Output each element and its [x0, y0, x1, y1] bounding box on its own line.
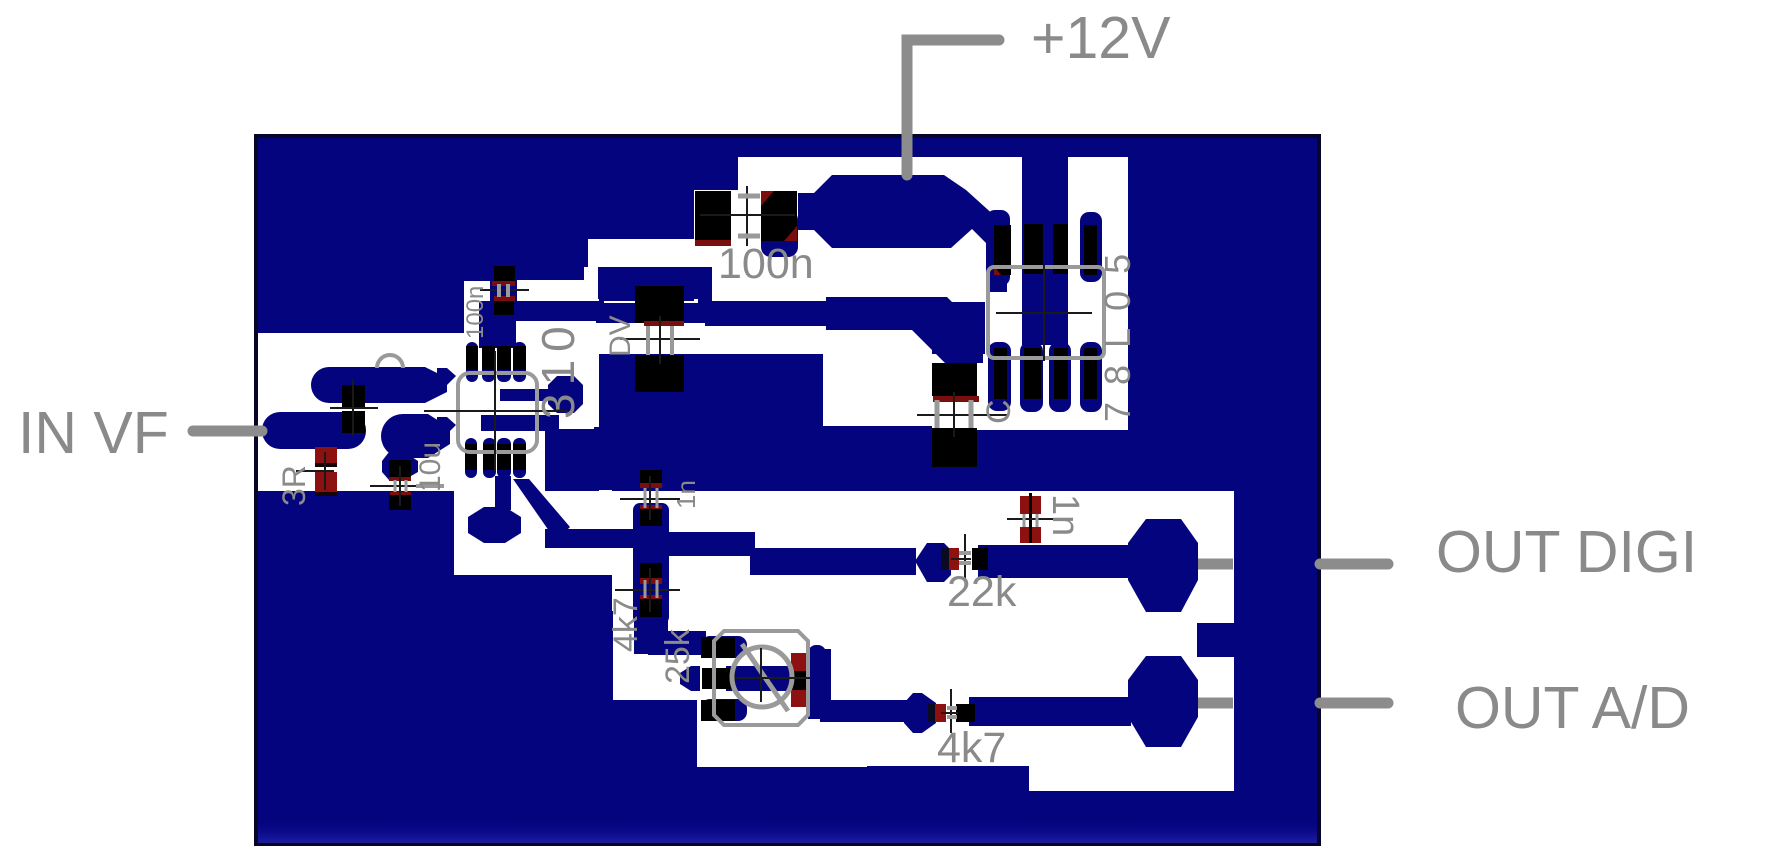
isolation (routed) white regions [258, 157, 1234, 791]
78L05 pad F black [1024, 348, 1041, 399]
IC1 pin7 black [497, 444, 511, 470]
capacitor C4 pads [932, 363, 977, 396]
wire trimmer wiper bar [726, 666, 826, 691]
pad OUT DIGI octagon [1128, 519, 1198, 612]
component pads black/red [315, 191, 1097, 722]
wire lead +12V [907, 40, 999, 175]
wire lead OUT DIGI outer [1320, 559, 1388, 570]
svg-text:10u: 10u [414, 442, 447, 492]
pad R3 left hexagon [904, 693, 936, 733]
wire junction block [635, 524, 668, 562]
isolation around C4 [932, 354, 990, 430]
isolation step bottom right [1029, 766, 1234, 791]
capacitor pad below C3 [382, 452, 418, 480]
pad IC1 top pins [466, 342, 478, 382]
trimmer slot line [742, 644, 788, 711]
isolation region trimmer right [697, 575, 867, 767]
3R3 crosshair [296, 452, 334, 490]
capacitor pads between R1 and lower stadium [342, 385, 365, 407]
wire elbow C6 to trimmer [634, 611, 668, 654]
svg-text:310: 310 [532, 318, 584, 419]
svg-text:78L05: 78L05 [1097, 237, 1138, 422]
78L05 outline [988, 267, 1104, 358]
pad A surround 78L05 pin [986, 210, 1010, 286]
wire IC1 pin4 to C1 area [598, 267, 712, 299]
svg-text:1n: 1n [1044, 494, 1086, 536]
svg-text:IN VF: IN VF [18, 400, 169, 466]
pad G surround 78L05 [1049, 342, 1071, 412]
wire R3 to OUT A/D pad [969, 697, 1131, 726]
pad stadium lower (IN VF entry) [262, 412, 366, 449]
svg-text:+12V: +12V [1031, 5, 1171, 71]
svg-text:25k: 25k [659, 628, 697, 684]
wire lead OUT DIGI inner [1198, 559, 1233, 570]
pad F surround 78L05 [1020, 342, 1043, 412]
IC1 pin6 black [483, 444, 496, 470]
4k7 resistor crosshair [941, 689, 958, 733]
isolation region trimmer left [613, 575, 697, 700]
capacitor C-DV pads [635, 286, 684, 323]
wire R1 to IC1 pin1 [437, 368, 456, 385]
78L05 pad D black [1084, 225, 1097, 275]
pad octagon below IC1 [468, 507, 521, 543]
C below C3 crosshair [370, 466, 418, 506]
trimmer outline [714, 631, 808, 725]
capacitor 1n pads [1020, 496, 1041, 514]
wire bar below IC1 center [481, 415, 559, 431]
isolation left band with IN VF pads and IC1 [258, 333, 594, 491]
svg-text:1n: 1n [671, 480, 701, 509]
isolation channel mid [694, 299, 823, 354]
silk arc fragment above R1 [377, 355, 403, 368]
wire IC1 pin3 down to octagon [495, 476, 511, 510]
capacitor C1 100n pad left [695, 191, 731, 240]
svg-text:100n: 100n [718, 240, 814, 288]
C1 crosshair [700, 186, 795, 246]
78L05 pad G black [1054, 348, 1068, 399]
trimmer P1 pad T1 [701, 637, 735, 658]
IC1 pin2 black [482, 346, 495, 370]
trimmer P1 pad T3 pill [701, 699, 747, 721]
pad octagon right of IC1 [548, 376, 583, 413]
wire link column [698, 297, 712, 313]
wire fat +12V trace from C1 to 78L05 pad A [798, 175, 1007, 292]
wire band from C2 to GND cap C4 [514, 301, 604, 321]
trimmer crosshair [735, 648, 810, 702]
capacitor C2 pads above IC1 [494, 266, 515, 281]
pad D surround 78L05 [1080, 212, 1102, 282]
isolation around octagon below IC1 [454, 490, 612, 575]
wire lead OUT A/D outer [1320, 698, 1388, 709]
wire horizontal to junction [545, 529, 640, 548]
pad C1 right surround [761, 210, 798, 257]
C6 crosshair [615, 568, 680, 612]
isolation band below 100n label [694, 250, 985, 302]
svg-text:4k7: 4k7 [607, 597, 645, 652]
wire C3 to IC1 pin5 [437, 417, 456, 434]
78L05 pad A black [994, 225, 1011, 275]
pad trimmer right pill [808, 645, 826, 714]
trimmer circle [732, 647, 792, 707]
svg-text:DV: DV [604, 315, 637, 357]
78L05 pad E black [994, 348, 1007, 399]
pad E surround 78L05 [988, 342, 1011, 411]
22k resistor crosshair [951, 534, 971, 582]
pour patch right of OUT DIGI [1197, 623, 1234, 657]
wire 22k to OUT DIGI pad [978, 545, 1130, 578]
wire diagonal from IC1 pin8 [513, 479, 570, 541]
wire lead OUT A/D inner [1198, 698, 1233, 709]
trimmer P1 right pads red [791, 653, 809, 671]
on-board value labels [276, 237, 1138, 772]
board outline (PCB edge) [256, 136, 1319, 844]
1n cap crosshair [1007, 518, 1054, 520]
resistor 3R3 red pads [315, 447, 337, 466]
silkscreen and annotations [296, 186, 1104, 733]
copper pour finger east of IC1 [545, 429, 599, 491]
78L05 pad C black [1053, 224, 1068, 274]
IC1 outline [458, 373, 537, 452]
svg-text:C: C [980, 399, 1018, 424]
pad OUT A/D octagon [1128, 656, 1198, 747]
C4 crosshair [917, 392, 1007, 437]
trimmer P1 pad T2 pill [680, 666, 700, 691]
capacitor C1 100n pad right [761, 191, 797, 241]
78L05 pad B black [1024, 224, 1043, 274]
IC1 crosshair [424, 351, 568, 471]
isolation column right of IC1 [514, 280, 599, 427]
78L05 crosshair [996, 265, 1092, 361]
wire IC1 to octagon [500, 389, 552, 401]
pour bottom bevel highlight [0, 0, 1, 1]
wire IC1 pins2-3 up block [479, 301, 516, 348]
IC1 pin3 black [497, 346, 511, 370]
IC1 pin4 black [513, 346, 526, 370]
wire junction to 22k [664, 532, 755, 556]
pad 22k left hexagon [915, 543, 951, 582]
IC1 pin1 black [466, 346, 478, 370]
svg-text:OUT A/D: OUT A/D [1455, 675, 1690, 741]
wire +12V feed bar to 78L05 pins [1022, 157, 1068, 345]
pad stadium R1 upper (IN VF) [311, 367, 447, 403]
isolation channel 22k / OUT DIGI [612, 491, 1234, 611]
C-DV crosshair [620, 316, 700, 364]
IC1 pin8 black [513, 444, 526, 470]
svg-text:22k: 22k [947, 568, 1017, 616]
isolation region top (around C1 100n and +12V trace) [738, 157, 1128, 250]
trimmer P1 pad T2 [702, 668, 735, 689]
svg-text:OUT DIGI: OUT DIGI [1436, 519, 1697, 585]
trimmer P1 pad T3 [701, 700, 735, 721]
pad IC1 bottom pins [465, 438, 477, 478]
svg-text:3R: 3R [276, 465, 312, 506]
resistor R3 4k7 pads [928, 704, 936, 722]
C5 crosshair [620, 476, 680, 520]
wire junction column (C5/C6) [633, 503, 669, 624]
wire lead IN VF [193, 426, 262, 437]
capacitor C5 pads on junction column [640, 470, 662, 485]
78L05 pad H black [1084, 348, 1097, 399]
svg-text:100n: 100n [462, 286, 489, 339]
pad C2 surround pill [490, 255, 517, 321]
resistor 22k pads [941, 548, 951, 570]
cap R1 crosshair [330, 380, 378, 436]
pad stadium C3 [381, 414, 450, 458]
IC1 pin5 black [465, 444, 477, 470]
C2 crosshair [480, 289, 529, 291]
trimmer P1 pad T1 pill [701, 636, 747, 658]
capacitor C6 pads on junction column [640, 563, 662, 578]
pad H surround 78L05 [1080, 342, 1102, 412]
copper traces and pads [262, 157, 1234, 747]
svg-text:4k7: 4k7 [937, 724, 1006, 772]
wire trimmer to R3 4k7 [808, 649, 831, 719]
isolation channel 4k7 / OUT A/D [867, 611, 1234, 766]
isolation region 78L05 [985, 250, 1128, 430]
